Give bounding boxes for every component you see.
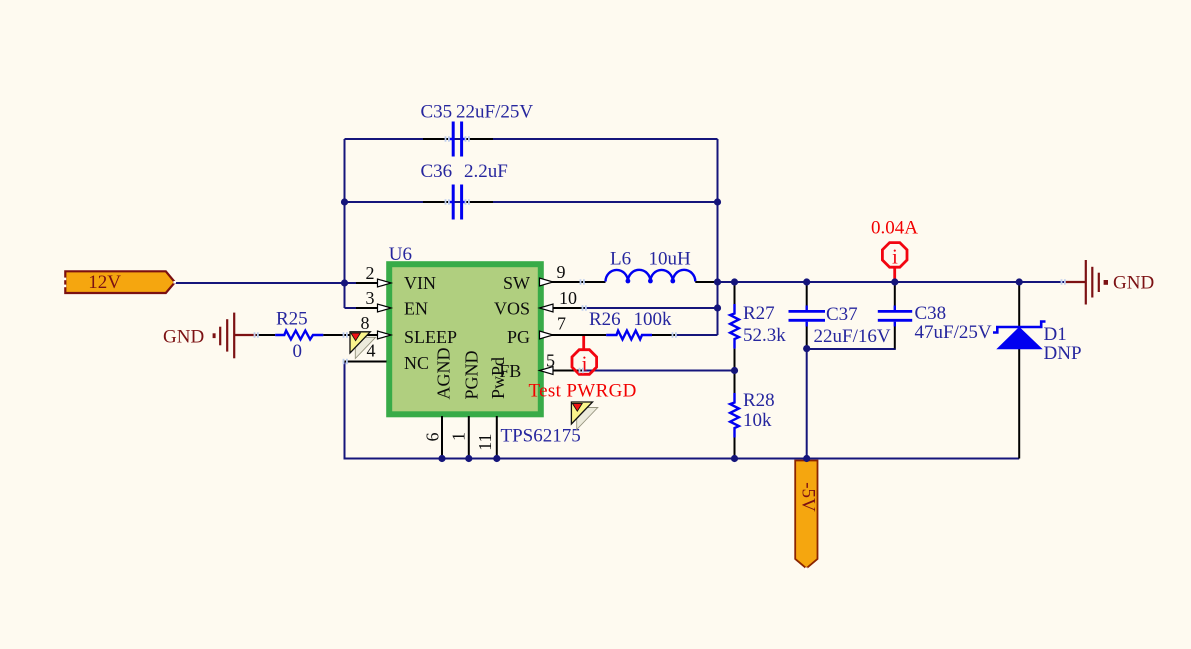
svg-text:6: 6 <box>423 433 443 442</box>
svg-text:10: 10 <box>559 288 577 308</box>
svg-text:0.04A: 0.04A <box>871 218 918 239</box>
svg-text:0: 0 <box>293 341 303 362</box>
svg-text:DNP: DNP <box>1044 343 1082 364</box>
svg-text:SW: SW <box>503 273 530 293</box>
svg-text:GND: GND <box>163 327 204 348</box>
svg-text:22uF/25V: 22uF/25V <box>456 102 533 123</box>
svg-text:PwPd: PwPd <box>488 357 508 399</box>
svg-text:7: 7 <box>557 314 566 334</box>
svg-text:2.2uF: 2.2uF <box>464 161 508 182</box>
junction C37 bottom <box>803 345 810 352</box>
svg-text:SLEEP: SLEEP <box>404 327 457 347</box>
capacitor C38 <box>878 282 992 349</box>
junction D1 top <box>1016 278 1023 285</box>
svg-text:D1: D1 <box>1044 324 1067 345</box>
svg-text:R28: R28 <box>743 390 775 411</box>
wire NC down leg <box>344 362 346 460</box>
U6 pin 5 FB <box>499 351 584 382</box>
svg-text:11: 11 <box>475 433 495 450</box>
junction C36 left <box>341 198 348 205</box>
svg-text:EN: EN <box>404 299 428 319</box>
svg-text:C38: C38 <box>915 303 947 324</box>
wire top C35 row <box>345 138 718 140</box>
current probe on PG (i) <box>572 336 597 376</box>
power port 12V <box>64 271 176 293</box>
svg-text:10uH: 10uH <box>649 249 692 270</box>
svg-text:R25: R25 <box>276 309 308 330</box>
svg-text:9: 9 <box>557 262 566 282</box>
svg-text:C36: C36 <box>421 161 453 182</box>
svg-text:U6: U6 <box>389 244 412 265</box>
junction -5V rail <box>803 455 810 462</box>
wire SW output rail <box>718 281 1066 283</box>
svg-text:GND: GND <box>1113 273 1154 294</box>
U6 pin 9 SW <box>503 262 606 293</box>
resistor R26 <box>589 309 676 339</box>
svg-text:L6: L6 <box>610 249 631 270</box>
svg-text:VIN: VIN <box>404 273 436 293</box>
svg-text:2: 2 <box>366 263 375 283</box>
svg-text:TPS62175: TPS62175 <box>501 426 581 447</box>
junction AGND rail <box>438 455 445 462</box>
wire FB to divider <box>584 370 735 372</box>
junction 12V rail <box>341 279 348 286</box>
capacitor C35 <box>421 102 534 157</box>
wire left vertical riser <box>344 139 346 308</box>
svg-text:10k: 10k <box>743 410 772 431</box>
diode D1 (Schottky, DNP) <box>993 282 1082 459</box>
capacitor C36 <box>421 161 508 220</box>
U6 pin 2 VIN <box>356 263 436 293</box>
resistor R25 <box>256 309 378 363</box>
power port -5V <box>795 461 818 571</box>
wire bottom ground rail <box>345 458 1020 460</box>
svg-text:100k: 100k <box>634 309 673 330</box>
junction C38 top <box>891 278 898 285</box>
test point flag Test PWRGD <box>571 402 597 430</box>
svg-text:R27: R27 <box>743 303 775 324</box>
junction PGND rail <box>465 455 472 462</box>
junction VOS riser <box>714 304 721 311</box>
wire 12V to VIN <box>174 282 360 284</box>
svg-text:52.3k: 52.3k <box>743 325 786 346</box>
inductor L6 <box>606 249 718 284</box>
svg-text:47uF/25V: 47uF/25V <box>915 322 992 343</box>
svg-text:AGND: AGND <box>434 348 454 400</box>
U6 pin 6 AGND <box>423 348 454 459</box>
wire right vertical riser <box>717 139 719 335</box>
resistor R28 <box>730 371 775 459</box>
wire EN stub <box>345 307 361 309</box>
current probe 0.04A <box>871 218 918 282</box>
U6 pin 11 PwPd <box>475 357 508 459</box>
svg-text:5: 5 <box>546 351 555 371</box>
svg-text:22uF/16V: 22uF/16V <box>814 326 891 347</box>
svg-text:i: i <box>892 245 898 269</box>
junction C36 right <box>714 198 721 205</box>
svg-text:VOS: VOS <box>494 299 530 319</box>
IC U6 TPS62175 body <box>389 244 581 447</box>
svg-text:PGND: PGND <box>462 350 482 399</box>
U6 pin 8 SLEEP <box>361 313 458 347</box>
junction R28 bottom <box>731 455 738 462</box>
junction PwPd rail <box>493 455 500 462</box>
wire C36 row <box>345 201 718 203</box>
svg-text:PG: PG <box>507 327 530 347</box>
svg-text:4: 4 <box>367 341 376 361</box>
wire R26 to riser <box>673 334 718 336</box>
svg-text:1: 1 <box>449 432 469 441</box>
hotspot tick marks <box>254 136 1066 373</box>
wire C37 bottom leg <box>806 349 808 459</box>
U6 pin 3 EN <box>356 288 428 319</box>
ground GND (left) <box>163 313 256 359</box>
ground GND (right) <box>1065 260 1154 305</box>
svg-text:C35: C35 <box>421 102 453 123</box>
svg-text:8: 8 <box>361 313 370 333</box>
junction R27 top <box>731 278 738 285</box>
svg-text:C37: C37 <box>826 304 858 325</box>
resistor R27 <box>730 282 786 371</box>
svg-text:-5V: -5V <box>798 482 819 512</box>
U6 pin 1 PGND <box>449 350 482 458</box>
wire C37 to C38 bottom <box>807 348 896 350</box>
junction FB divider <box>731 367 738 374</box>
svg-text:Test PWRGD: Test PWRGD <box>529 381 637 402</box>
svg-text:R26: R26 <box>589 309 621 330</box>
U6 pin 7 PG <box>507 314 606 348</box>
capacitor C37 <box>789 282 891 349</box>
svg-text:3: 3 <box>366 288 375 308</box>
test point flag on SLEEP net <box>350 332 376 359</box>
wire VOS feedback <box>584 307 718 309</box>
svg-text:12V: 12V <box>88 272 121 293</box>
junction C37 top <box>803 278 810 285</box>
label Test PWRGD <box>529 381 637 402</box>
U6 pin 4 NC <box>345 341 430 374</box>
svg-text:NC: NC <box>404 353 429 373</box>
U6 pin 10 VOS <box>494 288 585 319</box>
junction riser at SW rail <box>714 278 721 285</box>
